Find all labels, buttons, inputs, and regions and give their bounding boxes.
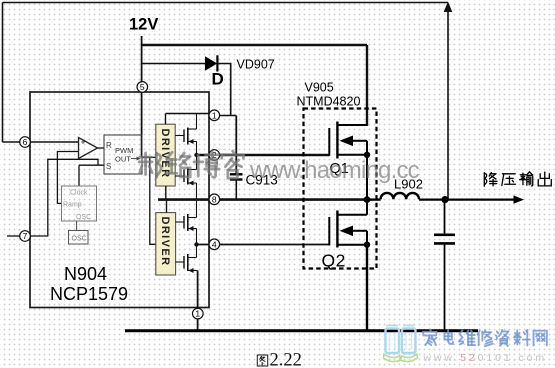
transistor internal FET A (high driver upper)	[175, 114, 196, 156]
svg-text:N904: N904	[64, 264, 107, 284]
capacitor output cap	[434, 235, 455, 244]
caption figure 2.22	[257, 351, 302, 368]
diode VD907	[205, 55, 217, 71]
svg-text:Clock: Clock	[70, 190, 88, 197]
watermark site name (Chinese)	[423, 329, 547, 346]
svg-text:VD907: VD907	[237, 58, 275, 72]
wire feedback net: left vertical	[2, 3, 4, 143]
wire osc connector	[76, 221, 78, 231]
wire FET D source to bottom pin 1	[197, 271, 199, 331]
clock ramp osc box	[62, 186, 97, 221]
wire internal bootstrap rail	[166, 113, 210, 115]
svg-text:Q2: Q2	[322, 251, 346, 271]
svg-text:D: D	[212, 70, 224, 89]
inductor L902	[381, 193, 419, 199]
node Q2 source junction	[364, 242, 370, 248]
watermark center haoming	[139, 151, 243, 178]
transistor Q2	[329, 200, 367, 248]
ground rail	[125, 329, 478, 332]
wire PWM out branch to lower driver	[150, 157, 156, 244]
wire PWM out to upper driver	[142, 156, 156, 158]
wire driver low top tie	[166, 200, 168, 213]
svg-text:4: 4	[212, 239, 217, 249]
oscillator box OSC	[69, 231, 89, 245]
pin 4	[209, 239, 220, 250]
pin 1 bottom	[193, 308, 204, 319]
chip N904 box	[30, 92, 209, 308]
op-amp comparator	[79, 138, 98, 159]
wire Q2 source to ground	[366, 245, 368, 331]
svg-text:6: 6	[23, 137, 28, 147]
arrowhead output	[514, 195, 525, 203]
wire diode branch from 12V vertical	[142, 63, 205, 65]
svg-text:R: R	[106, 141, 112, 150]
svg-text:OUT: OUT	[115, 155, 131, 164]
node low bridge junction	[194, 242, 198, 246]
svg-text:5: 5	[140, 82, 145, 92]
svg-text:2.22: 2.22	[270, 351, 302, 368]
capacitor C913	[230, 174, 243, 199]
pin 2	[209, 150, 220, 161]
svg-text:www.haoming.cc: www.haoming.cc	[249, 157, 420, 184]
wire pin7 external stub	[7, 235, 20, 237]
wire pin4 bottom-gate line to Q2 gate	[197, 244, 330, 246]
node Q1 source junction	[364, 152, 370, 158]
wire inductor to output node	[419, 199, 445, 201]
wire ramp output to comparator lower input	[57, 152, 78, 204]
transistor internal FET B (high driver lower)	[175, 155, 196, 200]
svg-text:NCP1579: NCP1579	[50, 284, 128, 304]
transistor internal FET C (low driver upper)	[176, 200, 197, 245]
wire output arrow line	[445, 199, 516, 201]
wire pin1 bootstrap external	[209, 115, 236, 117]
svg-text:1: 1	[212, 110, 217, 120]
wire switch node to inductor	[367, 198, 381, 200]
wire 12V top rail to Q1 drain	[142, 44, 367, 46]
node switch node	[364, 196, 371, 203]
wire feedback net: top horizontal	[3, 2, 449, 4]
svg-text:NTMD4820: NTMD4820	[297, 95, 361, 109]
logo book icon	[384, 326, 418, 362]
svg-text:12V: 12V	[129, 16, 158, 34]
PWM latch box U-pwm	[104, 135, 142, 174]
driver U-high block	[156, 124, 175, 186]
svg-text:Ramp: Ramp	[63, 202, 82, 209]
capacitor output cap bottom lead	[444, 245, 446, 331]
label PWM OUT	[115, 146, 141, 164]
pin 8	[209, 194, 220, 205]
svg-text:8: 8	[212, 194, 217, 204]
capacitor output cap top lead	[444, 200, 446, 234]
pin 7	[20, 231, 31, 242]
svg-text:OSC: OSC	[72, 236, 87, 243]
pin 6	[20, 137, 31, 148]
wire pin7 internal riser	[30, 159, 98, 236]
svg-text:S: S	[106, 162, 111, 171]
arrowhead feedback (points up at top corner)	[444, 2, 453, 13]
svg-text:OSC: OSC	[76, 214, 91, 221]
node half-bridge high junction	[194, 153, 198, 157]
svg-text:www.520101.com: www.520101.com	[423, 352, 547, 364]
wire feedback net: right vertical down to output node	[447, 4, 449, 199]
wire pin6 internal to comparator	[31, 141, 79, 143]
svg-text:7: 7	[23, 231, 28, 241]
wire driver high top tie	[165, 114, 167, 125]
svg-text:DRIVER: DRIVER	[159, 217, 171, 267]
driver U-low block	[156, 213, 176, 275]
svg-text:V905: V905	[305, 81, 334, 95]
wire 12V vertical into pin 5 and chip	[141, 36, 143, 157]
svg-text:1: 1	[195, 309, 200, 319]
label output (Chinese: step-down output)	[484, 172, 551, 186]
transistor internal FET D (low driver lower)	[176, 245, 198, 274]
pin 1	[209, 110, 220, 121]
wire driver high bottom tie	[165, 186, 167, 200]
wire ramp box top riser	[78, 165, 80, 186]
transistor Q1	[329, 122, 367, 200]
wire comparator output to latch R input	[98, 147, 105, 149]
dual-FET module dashed box V905	[304, 109, 377, 269]
wire diode cathode to bootstrap node	[218, 64, 231, 116]
pin 5	[137, 82, 148, 93]
wire pin8 switch rail	[158, 198, 367, 201]
wire latch S input line	[79, 164, 104, 166]
wire bootstrap cap drop	[235, 116, 237, 174]
node output junction	[441, 196, 448, 203]
wire Q1 drain riser from 12V rail	[366, 45, 368, 126]
wire pin2 top-gate line to Q1 gate	[197, 154, 330, 156]
wire pin6 stub to feedback line	[3, 141, 32, 143]
